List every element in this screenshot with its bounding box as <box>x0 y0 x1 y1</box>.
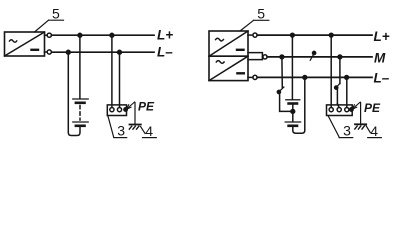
wire mid junction to battery G3 <box>292 111 294 121</box>
svg-text:3: 3 <box>117 123 125 139</box>
battery G1 top cell long plate <box>73 98 88 100</box>
junction dot M / terminal block <box>338 55 342 59</box>
battery G1 dashed cells axis <box>79 106 81 121</box>
wire drop L+ to battery G2 <box>291 35 293 99</box>
tap mark on M bus <box>310 51 316 60</box>
terminal circle L+ output <box>45 33 52 37</box>
wire to earth <box>134 103 136 125</box>
terminal circle M <box>262 55 267 59</box>
wire drop M to terminal block, lower segment <box>336 88 338 103</box>
wire M drop upper segment <box>281 57 283 88</box>
DC minus symbol in U1 <box>32 49 39 51</box>
wire L- bus <box>51 51 154 53</box>
svg-text:5: 5 <box>257 6 265 22</box>
wire L- bus (right) <box>257 76 372 78</box>
terminal dot X2 PE <box>350 108 353 111</box>
label 4 underline (right) <box>368 137 382 139</box>
svg-text:4: 4 <box>370 123 378 139</box>
mid terminal bracket joining the two converters <box>248 53 262 60</box>
svg-text:PE: PE <box>364 101 381 115</box>
terminal circle X2:1 <box>329 108 333 112</box>
junction dot L+ / battery <box>78 33 82 37</box>
battery G1 top cell short plate <box>76 102 85 105</box>
battery G2 short plate <box>289 102 297 105</box>
battery G3 short plate <box>289 125 297 128</box>
svg-text:4: 4 <box>145 123 153 139</box>
svg-text:L+: L+ <box>157 27 173 42</box>
wire battery drop from L+ <box>79 35 81 98</box>
junction dot L+ / terminal block <box>110 33 114 37</box>
wire drop L- to terminal block <box>119 52 121 107</box>
battery G2 long plate <box>286 99 300 101</box>
svg-text:L+: L+ <box>374 29 390 44</box>
label 3 underline <box>114 137 127 139</box>
AC tilde symbol in U2 lower <box>216 61 224 64</box>
DC minus symbol in U2 lower <box>237 72 243 74</box>
wire to earth (right) <box>360 103 362 125</box>
wire drop L+ to terminal block <box>111 35 113 107</box>
svg-text:L–: L– <box>157 44 173 59</box>
svg-text:L–: L– <box>374 71 390 86</box>
earth symbol (right) <box>355 124 366 129</box>
PE conductor arrow <box>126 102 134 109</box>
wire G2 to mid junction <box>292 104 294 112</box>
svg-text:3: 3 <box>343 123 351 139</box>
power supply U2 upper converter box <box>209 31 248 56</box>
terminal circle X2:3 <box>345 108 349 112</box>
terminal circle L- (right) <box>248 75 257 79</box>
terminal block X2 <box>327 105 353 116</box>
wire M drop lower segment to battery midpoint <box>280 93 293 112</box>
DC minus symbol in U2 upper <box>237 49 244 51</box>
junction dot M / battery tap <box>280 55 284 59</box>
label 3 underline (right) <box>339 137 353 139</box>
junction dot L- / terminal block <box>118 50 122 54</box>
label 5 underline (right) <box>254 19 269 21</box>
label 5 underline <box>49 19 64 21</box>
terminal circle X1:1 <box>110 108 114 112</box>
svg-text:M: M <box>374 51 386 66</box>
wire battery return to L- (right) <box>293 77 305 133</box>
tap mark on M terminal drop <box>335 83 340 89</box>
leader line to label 3 <box>108 116 114 137</box>
junction dot L- / terminal block (right) <box>345 76 349 80</box>
battery G1 bottom cell long plate <box>73 121 88 123</box>
terminal circle X2:2 <box>337 108 341 112</box>
junction dot L+ / battery (right) <box>291 33 295 37</box>
terminal block X1 <box>107 105 126 116</box>
terminal circle L+ (right) <box>248 33 257 37</box>
leader line to label 5 (right) <box>240 20 254 31</box>
terminal circle X1:2 <box>117 108 121 112</box>
battery G1 bottom cell short plate <box>76 125 85 128</box>
leader line to label 5 <box>35 20 49 32</box>
svg-text:PE: PE <box>138 100 155 114</box>
leader line to label 4 (right) <box>366 126 370 133</box>
label 4 underline <box>143 137 157 139</box>
PE conductor arrow (right) <box>352 102 360 109</box>
junction dot battery midpoint <box>291 110 295 114</box>
wire drop L- to terminal block (right) <box>346 77 348 107</box>
junction dot L- / battery return <box>66 50 70 54</box>
wire M bus <box>267 56 372 58</box>
power supply U2 lower converter box <box>209 56 248 80</box>
AC tilde symbol in U1 <box>10 40 17 43</box>
wire battery return to L- <box>68 52 80 135</box>
wire L+ bus (right) <box>257 34 372 36</box>
leader line to label 4 <box>141 127 145 134</box>
tap mark on M drop <box>277 87 284 94</box>
svg-text:5: 5 <box>52 6 60 22</box>
wire drop L+ to terminal block (right) <box>330 35 332 107</box>
battery G3 long plate <box>285 121 300 123</box>
junction dot L- / battery return (right) <box>303 76 307 80</box>
wire drop M to terminal block, upper segment <box>339 57 341 84</box>
wire L+ bus <box>51 34 154 36</box>
power supply U1 (AC/DC converter box) <box>5 32 45 56</box>
leader line to label 3 (right) <box>328 116 339 138</box>
AC tilde symbol in U2 upper <box>216 38 224 41</box>
junction dot L+ / terminal block (right) <box>329 33 333 37</box>
terminal circle L- output <box>45 50 52 54</box>
earth symbol (4) <box>129 125 141 130</box>
terminal dot X1 PE <box>124 108 127 111</box>
